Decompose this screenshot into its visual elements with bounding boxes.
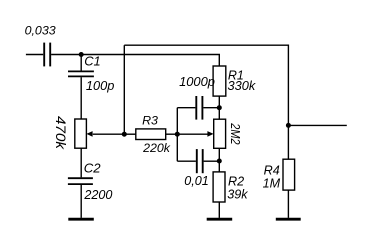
potentiometer 470k body: [75, 119, 87, 148]
wire 0,01 to chain: [204, 160, 220, 162]
node R3 left junction: [122, 132, 127, 137]
wire 2M2 bottom to R2: [218, 148, 220, 172]
ground under R2: [207, 218, 233, 221]
svg-text:C1: C1: [84, 54, 100, 69]
wire C1 to potentiometer: [80, 77, 82, 119]
capacitor C1: [68, 71, 94, 76]
wire pot bottom to C2: [80, 148, 82, 177]
svg-text:1M: 1M: [263, 176, 281, 190]
wire R1 bottom to 2M2: [218, 96, 220, 119]
capacitor 0,033: [44, 43, 50, 67]
svg-text:0,033: 0,033: [25, 24, 56, 38]
arrow wiper 2M2: [207, 131, 213, 137]
capacitor C2: [68, 178, 93, 184]
wire output node to R4: [287, 125, 289, 159]
svg-text:100p: 100p: [86, 78, 114, 93]
svg-text:220k: 220k: [142, 141, 171, 155]
svg-text:R3: R3: [142, 113, 158, 127]
svg-text:C2: C2: [84, 160, 102, 175]
arrow wiper 470k: [86, 131, 92, 137]
ground under R4: [276, 218, 301, 221]
wire C1 top lead: [80, 55, 82, 72]
wire R3 left: [124, 133, 136, 135]
wire R2 to ground: [218, 202, 220, 218]
resistor R2 body: [213, 172, 225, 202]
wire C2 to ground: [80, 185, 82, 218]
wire rail drop to R3 node: [123, 45, 125, 134]
wire to 0,01: [177, 160, 196, 162]
wire pot wiper to R3 node: [93, 133, 125, 135]
wire top rail: [124, 45, 288, 125]
wire 1000p to chain: [203, 107, 219, 109]
ground under C2: [68, 218, 94, 221]
wire R3 right: [166, 133, 178, 135]
svg-text:39k: 39k: [227, 188, 248, 202]
node output junction: [286, 123, 291, 128]
svg-text:R2: R2: [228, 174, 244, 188]
wire 2M2 wiper: [177, 133, 208, 135]
wire left cap branch vertical: [176, 108, 178, 162]
svg-text:0,01: 0,01: [184, 174, 209, 188]
svg-text:R4: R4: [264, 163, 280, 177]
node 2M2/R2/0,01 junction: [217, 159, 222, 164]
capacitor 0,01: [197, 149, 203, 173]
svg-text:330k: 330k: [228, 78, 256, 93]
wire output: [288, 124, 346, 126]
node input/C1 junction: [79, 52, 84, 57]
svg-text:470k: 470k: [53, 116, 69, 150]
capacitor 1000p: [196, 96, 202, 120]
node R1/2M2/1000p junction: [217, 105, 222, 110]
wire to 1000p: [177, 107, 195, 109]
wire input node to R1 top: [51, 55, 219, 67]
potentiometer 2M2 body: [214, 119, 226, 148]
resistor R4 body: [283, 159, 295, 190]
svg-text:2M2: 2M2: [228, 122, 243, 145]
resistor R3 body: [136, 129, 166, 140]
wire input left: [26, 54, 43, 56]
node R3 right junction: [175, 132, 180, 137]
wire R4 to ground: [287, 190, 289, 218]
svg-text:2200: 2200: [83, 188, 112, 202]
svg-text:1000p: 1000p: [179, 74, 215, 89]
resistor R1 body: [213, 66, 226, 96]
